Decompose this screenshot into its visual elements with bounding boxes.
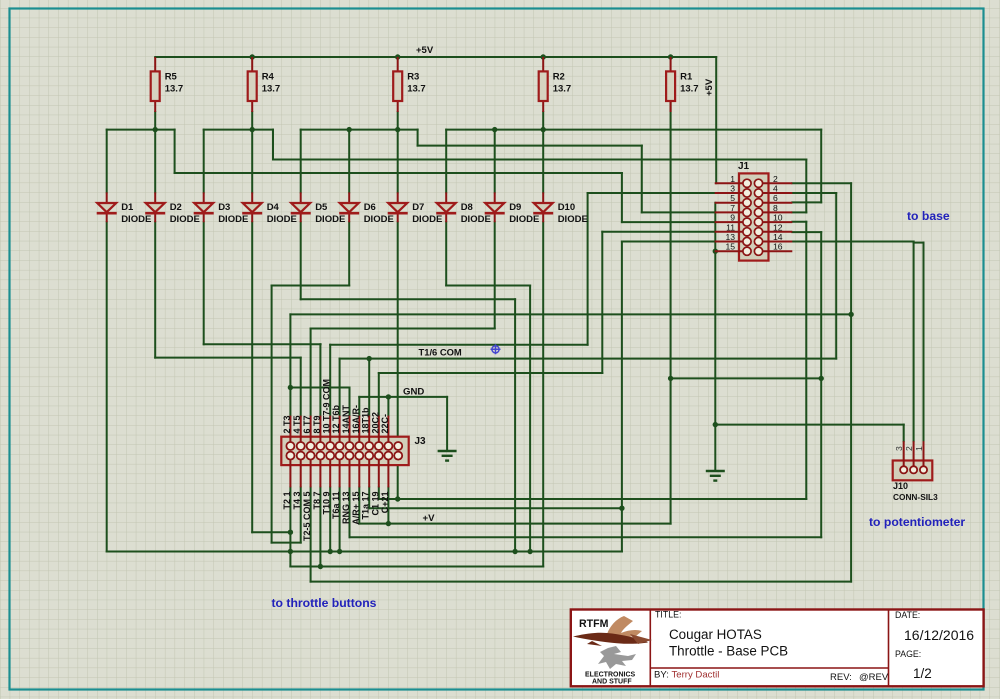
svg-text:DIODE: DIODE	[121, 214, 151, 225]
wire to J1 pin13	[622, 241, 715, 243]
origin marker	[491, 344, 501, 354]
wire R1 to J1 pin12 column	[671, 377, 822, 379]
wire GND column to J10 pin3	[715, 424, 903, 426]
svg-text:5: 5	[730, 193, 735, 203]
svg-text:D3: D3	[218, 202, 230, 213]
svg-text:T4 3: T4 3	[292, 492, 302, 510]
wire to J1 pin6	[792, 201, 821, 203]
wire ANT line	[290, 387, 349, 389]
diode D6	[339, 192, 394, 225]
svg-text:13.7: 13.7	[553, 84, 572, 95]
junction pin13 column/T1a	[619, 506, 624, 511]
connector J3	[281, 379, 426, 541]
svg-text:D2: D2	[170, 202, 182, 213]
wire J3 pin1 down	[289, 487, 291, 551]
svg-text:6 T7: 6 T7	[302, 415, 312, 433]
svg-text:@REV: @REV	[859, 672, 889, 683]
svg-text:22C-: 22C-	[380, 414, 390, 434]
svg-text:R3: R3	[407, 72, 419, 83]
wire resistor to bus	[542, 112, 544, 130]
wire J3 pin13 down	[349, 487, 351, 537]
svg-text:18T1b: 18T1b	[361, 407, 371, 434]
resistor R5	[151, 57, 184, 112]
svg-text:to potentiometer: to potentiometer	[869, 515, 965, 529]
wire D6 column down	[271, 286, 273, 543]
wire J3 pin15 down	[358, 487, 360, 523]
wire GND drop	[446, 397, 448, 451]
wire down to J10 pin2	[913, 242, 915, 442]
svg-text:13: 13	[725, 232, 735, 242]
svg-text:DIODE: DIODE	[558, 214, 588, 225]
svg-text:4: 4	[773, 184, 778, 194]
wire bus segment D5-D6-R3-D7	[301, 129, 418, 131]
svg-text:13.7: 13.7	[165, 84, 184, 95]
svg-text:J3: J3	[415, 436, 427, 447]
junction +5V/R1	[668, 54, 673, 59]
diode D10	[533, 192, 588, 225]
wire D8 down	[445, 222, 447, 285]
wire R1 down	[670, 101, 672, 378]
resistor R3	[393, 57, 426, 112]
wire +V line	[359, 523, 670, 525]
svg-text:R2: R2	[553, 72, 565, 83]
svg-text:J10: J10	[893, 481, 908, 491]
wire GND line	[359, 396, 447, 398]
wire J3 pin19 down	[378, 487, 380, 499]
svg-text:DIODE: DIODE	[218, 214, 248, 225]
wire J3 pin11 down	[339, 487, 341, 551]
svg-text:D8: D8	[461, 202, 473, 213]
wire +5V rail	[155, 56, 716, 58]
svg-text:16/12/2016: 16/12/2016	[904, 627, 974, 643]
wire D1 down	[106, 222, 108, 551]
svg-text:13.7: 13.7	[407, 84, 426, 95]
svg-text:Cougar HOTAS: Cougar HOTAS	[669, 627, 762, 642]
wire drop to J1 pin8 row	[805, 160, 807, 213]
junction pin2 column/T3	[848, 312, 853, 317]
wire resistor to bus	[251, 112, 253, 130]
svg-text:T8 7: T8 7	[312, 492, 322, 510]
svg-text:J1: J1	[738, 161, 750, 172]
junction J1 pin15	[713, 249, 718, 254]
wire D5 column down	[514, 299, 516, 551]
svg-text:R5: R5	[165, 72, 178, 83]
wire D6 to J3 pin3	[272, 542, 301, 544]
diode D1	[97, 192, 152, 225]
wire C2 from J3 pin20	[379, 372, 603, 374]
junction bus/D6	[347, 127, 352, 132]
wire D2 to J3 pin4	[155, 357, 301, 359]
svg-text:CONN-SIL3: CONN-SIL3	[893, 492, 938, 502]
wire D4 to J3 pin1 column	[252, 531, 290, 533]
svg-text:+5V: +5V	[704, 78, 715, 96]
svg-text:9: 9	[730, 213, 735, 223]
wire D9 down	[494, 222, 496, 328]
junction +V/J3 pin21	[386, 521, 391, 526]
svg-text:DIODE: DIODE	[509, 214, 539, 225]
ground below J1	[706, 471, 725, 481]
svg-text:D5: D5	[315, 202, 328, 213]
wire D5 down	[300, 222, 302, 299]
wire J3 pin21 down	[387, 487, 389, 523]
junction bus/D9	[492, 127, 497, 132]
wire D2 down	[154, 222, 156, 357]
wire D1 top	[106, 130, 108, 193]
wire D3 to J3 pin8 turn	[204, 343, 321, 345]
resistor R2	[539, 57, 572, 112]
wire J3 pin7 down	[319, 487, 321, 566]
svg-text:1: 1	[914, 446, 924, 451]
svg-text:2 T3: 2 T3	[282, 415, 292, 433]
wire J3 pin12 up	[339, 359, 341, 416]
junction T1/6 COM/J3 pin18	[367, 356, 372, 361]
svg-text:DIODE: DIODE	[412, 214, 442, 225]
wire T1/6 COM line	[340, 358, 837, 360]
wire D7 down	[397, 222, 399, 499]
wire drop to J1 pin9 row	[621, 173, 623, 222]
svg-text:16: 16	[773, 242, 783, 252]
wire bus segment D3-R4-D4	[204, 129, 273, 131]
wire J3 pin14 up	[349, 388, 351, 416]
junction R1/J1 pin12 net	[668, 376, 673, 381]
svg-text:14ANT: 14ANT	[341, 404, 351, 433]
wire D10 top	[542, 130, 544, 193]
svg-text:D10: D10	[558, 202, 575, 213]
wire +5V to J1 pin1	[715, 57, 717, 183]
wire J3 pin8 up	[319, 344, 321, 415]
svg-text:Throttle - Base PCB: Throttle - Base PCB	[669, 644, 788, 659]
junction C1/D7	[395, 496, 400, 501]
svg-text:2: 2	[904, 446, 914, 451]
wire D8 east	[446, 285, 530, 287]
svg-text:4 T5: 4 T5	[292, 415, 302, 433]
wire to J1 pin11	[602, 231, 714, 233]
wire net L1 bottom	[107, 551, 622, 553]
wire J1 pin13 column down	[621, 242, 623, 552]
svg-text:DIODE: DIODE	[364, 214, 394, 225]
wire bus4 drop to J1 pin6	[820, 130, 822, 203]
wire J1 pin12 east	[792, 231, 821, 233]
wire T2-5 COM line east	[311, 581, 852, 583]
svg-text:1: 1	[730, 174, 735, 184]
wire D8 top	[445, 130, 447, 193]
wire D6 west	[272, 285, 350, 287]
junction D10 line/J3 pin7	[318, 564, 323, 569]
junction GND/J3 pin22	[386, 394, 391, 399]
wire J1 pin14 to J10	[792, 241, 913, 243]
wire net row3 to x642	[418, 145, 642, 147]
wire resistor to bus	[154, 112, 156, 130]
junction +5V/R3	[395, 54, 400, 59]
wire D10 down	[542, 222, 544, 566]
svg-text:D9: D9	[509, 202, 521, 213]
svg-text:20C2: 20C2	[370, 412, 380, 434]
wire J3 pin18 up	[368, 359, 370, 416]
junction pin11/net L1	[337, 549, 342, 554]
wire J1 pin10 east	[792, 221, 806, 223]
svg-text:R1: R1	[680, 72, 693, 83]
wire J1 pin2 east	[792, 182, 851, 184]
wire D4 down	[251, 222, 253, 532]
junction R2/D10	[541, 127, 546, 132]
svg-text:7: 7	[730, 203, 735, 213]
svg-text:D6: D6	[364, 202, 376, 213]
junction L1/D8	[527, 549, 532, 554]
wire J3 pin17 down	[368, 487, 370, 508]
svg-text:to throttle buttons: to throttle buttons	[272, 596, 377, 610]
svg-text:C+21: C+21	[380, 492, 390, 514]
junction R5/D2	[153, 127, 158, 132]
svg-text:DIODE: DIODE	[267, 214, 297, 225]
ground near J3	[438, 451, 457, 461]
svg-text:13.7: 13.7	[262, 84, 281, 95]
junction L1/D5	[512, 549, 517, 554]
svg-text:13.7: 13.7	[680, 84, 699, 95]
wire J1 pin12 column down	[820, 232, 822, 537]
diode D8	[436, 192, 491, 225]
wire bus segment D1-R5-D2	[107, 129, 175, 131]
svg-text:DIODE: DIODE	[315, 214, 345, 225]
wire J3 pin9 down	[329, 487, 331, 551]
wire J3 pin3 down	[300, 487, 302, 542]
svg-text:T2-5 COM 5: T2-5 COM 5	[302, 492, 312, 542]
wire R1 column to +V	[670, 378, 672, 523]
wire T7-9 COM from J3 pin10	[330, 344, 587, 346]
wire J1 pin4 column to T1/6 COM	[835, 193, 837, 359]
svg-text:ELECTRONICS: ELECTRONICS	[585, 672, 636, 679]
wire bus2 drop	[272, 130, 274, 160]
svg-text:R4: R4	[262, 72, 275, 83]
diode D4	[242, 192, 297, 225]
wire drop to J1 pin7 row	[641, 146, 643, 213]
svg-text:T2 1: T2 1	[282, 492, 292, 510]
wire bus3 drop	[417, 130, 419, 146]
svg-text:16A/R-: 16A/R-	[351, 405, 361, 434]
wire D9 top	[494, 130, 496, 193]
svg-text:RTFM: RTFM	[579, 618, 609, 630]
diode D3	[194, 192, 249, 225]
svg-text:REV:: REV:	[830, 672, 852, 683]
wire C1 line east	[379, 498, 807, 500]
svg-text:12: 12	[773, 222, 783, 232]
junction pin1/D4	[288, 530, 293, 535]
svg-text:15: 15	[725, 242, 735, 252]
svg-text:T1/6 COM: T1/6 COM	[419, 347, 462, 358]
wire to J1 pin8	[792, 211, 806, 213]
svg-text:8: 8	[773, 203, 778, 213]
svg-text:D4: D4	[267, 202, 280, 213]
wire down to J10 pin1	[923, 243, 925, 442]
wire J1 pin11 drop	[601, 232, 603, 373]
wire D5 top	[300, 130, 302, 193]
wire D6 down	[348, 222, 350, 285]
svg-text:2: 2	[773, 174, 778, 184]
wire bus1 drop	[174, 130, 176, 173]
svg-text:D7: D7	[412, 202, 424, 213]
connector J1	[715, 161, 793, 261]
svg-text:A/R+ 15: A/R+ 15	[351, 492, 361, 525]
junction pin12 column	[819, 376, 824, 381]
wire net row2 to x806	[273, 159, 806, 161]
svg-text:10: 10	[773, 213, 783, 223]
svg-text:DATE:: DATE:	[895, 610, 920, 620]
svg-text:8 T9: 8 T9	[312, 415, 322, 433]
connector J10	[893, 441, 938, 502]
title block	[571, 610, 984, 687]
resistor R4	[248, 57, 281, 112]
wire pin1 column extension	[289, 552, 291, 567]
svg-text:TITLE:: TITLE:	[655, 610, 681, 620]
diode D5	[291, 192, 346, 225]
junction +5V/R2	[541, 54, 546, 59]
wire J3 pin10 up	[329, 345, 331, 416]
wire D5 east	[301, 298, 515, 300]
svg-text:1/2: 1/2	[913, 666, 932, 681]
svg-text:3: 3	[894, 446, 904, 451]
junction R4/D4	[250, 127, 255, 132]
svg-text:DIODE: DIODE	[170, 214, 200, 225]
wire J3 pin5 down	[310, 487, 312, 581]
wire J1 pin10 column down	[805, 222, 807, 499]
wire bus segment D8-D9-R2-D10 to J1 pin6	[446, 129, 821, 131]
wire net row1 to x622	[175, 172, 622, 174]
svg-text:GND: GND	[403, 387, 424, 398]
junction pin1/net L1	[288, 549, 293, 554]
wire J3 pin4 up	[300, 358, 302, 416]
junction pin2 col/ANT line	[288, 385, 293, 390]
svg-text:C1 19: C1 19	[370, 492, 380, 516]
wire drop to J10 pin3	[903, 425, 905, 442]
svg-text:AND STUFF: AND STUFF	[592, 679, 632, 686]
wire D2 top	[154, 130, 156, 193]
svg-text:+5V: +5V	[416, 45, 434, 56]
wire T3 J3 pin2 to J1 pin2	[290, 313, 851, 315]
wire J3 pin2 up	[289, 314, 291, 415]
junction pin9/net L1	[328, 549, 333, 554]
svg-text:BY: Terry Dactil: BY: Terry Dactil	[654, 670, 719, 681]
diode D2	[145, 192, 200, 225]
svg-text:12 T6b: 12 T6b	[331, 404, 341, 433]
wire D4 top	[251, 130, 253, 193]
wire J3 pin22 up	[387, 397, 389, 416]
wire D6 top	[348, 130, 350, 193]
diode D7	[388, 192, 443, 225]
svg-text:to base: to base	[907, 209, 950, 223]
wire J1 pin5/15 to ground	[714, 203, 716, 471]
svg-text:6: 6	[773, 193, 778, 203]
junction gnd/J10 line	[713, 422, 718, 427]
svg-text:+V: +V	[423, 513, 436, 524]
wire to J1 pin3	[588, 192, 715, 194]
wire resistor to bus	[397, 112, 399, 130]
svg-text:RNG 13: RNG 13	[341, 492, 351, 525]
wire T1a line east	[369, 507, 622, 509]
svg-text:14: 14	[773, 232, 783, 242]
svg-text:DIODE: DIODE	[461, 214, 491, 225]
wire D10 line west	[290, 566, 543, 568]
wire RNG line east	[350, 536, 822, 538]
wire J10 pin1 link	[914, 242, 924, 244]
junction R3/D7	[395, 127, 400, 132]
wire D3 down	[203, 222, 205, 344]
wire J3 pin16 up	[358, 397, 360, 416]
wire D7 top	[397, 130, 399, 193]
wire D9 to J3 pin6	[311, 328, 495, 330]
wire J3 pin20 up	[378, 373, 380, 416]
wire J1 pin2 column down	[850, 183, 852, 581]
diode D9	[485, 192, 540, 225]
svg-text:11: 11	[726, 222, 735, 232]
wire D3 top	[203, 130, 205, 193]
wire to J1 pin7	[642, 211, 715, 213]
wire J3 pin6 up	[310, 329, 312, 416]
resistor R1	[666, 57, 699, 112]
svg-text:PAGE:: PAGE:	[895, 649, 921, 659]
wire D8 column down	[529, 286, 531, 552]
svg-text:T6a 11: T6a 11	[331, 492, 341, 520]
svg-text:D1: D1	[121, 202, 134, 213]
svg-text:T1a 17: T1a 17	[361, 492, 371, 520]
wire to J1 pin9	[622, 221, 715, 223]
junction +5V/R4	[250, 54, 255, 59]
wire J1 pin4 east	[792, 192, 836, 194]
wire J1 pin3 drop to T7-9 COM	[587, 193, 589, 345]
svg-text:3: 3	[730, 184, 735, 194]
